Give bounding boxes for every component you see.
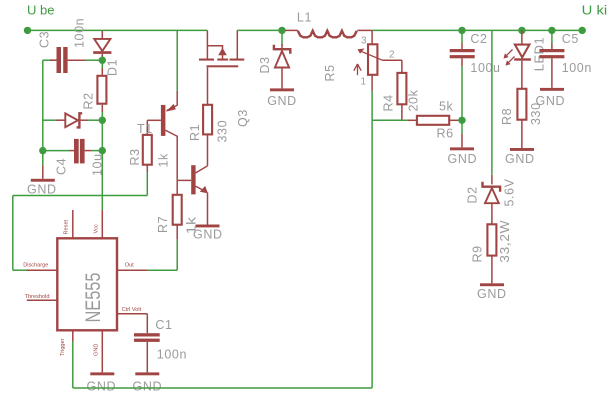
node junction dot D1 cathode <box>99 57 106 64</box>
svg-text:100u: 100u <box>470 61 500 75</box>
resistor R2 <box>82 64 107 118</box>
node junction dot U_be terminal <box>24 27 31 34</box>
svg-text:C5: C5 <box>562 32 579 46</box>
svg-text:D3: D3 <box>258 56 272 73</box>
diode D1 <box>93 31 119 76</box>
node junction dot U_ki terminal <box>579 27 586 34</box>
ground R8 <box>505 148 535 166</box>
svg-text:C2: C2 <box>470 32 487 46</box>
svg-text:GND: GND <box>536 94 566 108</box>
pin Trigger <box>60 330 73 356</box>
capacitor C4 <box>43 139 105 176</box>
svg-text:5k: 5k <box>439 100 454 114</box>
svg-text:5.6V: 5.6V <box>503 178 517 206</box>
ground below C4 <box>27 151 57 197</box>
svg-text:D1: D1 <box>106 59 120 76</box>
wire left vertical from C3 <box>42 60 44 150</box>
svg-text:R8: R8 <box>500 108 514 125</box>
transistor T1 pnp <box>137 104 177 180</box>
svg-text:GND: GND <box>505 152 535 166</box>
svg-text:R5: R5 <box>323 64 337 81</box>
node junction dot L1 left <box>278 27 285 34</box>
svg-text:R6: R6 <box>437 127 454 141</box>
wire rail right of R5 tap <box>372 29 582 31</box>
svg-text:Discharge: Discharge <box>23 262 48 268</box>
wire rail to D2 <box>491 30 493 184</box>
node junction dot R6 right / C2 bottom <box>458 117 465 124</box>
svg-text:L1: L1 <box>297 11 312 25</box>
resistor R7 <box>156 180 199 239</box>
svg-text:100n: 100n <box>157 348 187 362</box>
svg-text:C1: C1 <box>155 318 172 332</box>
resistor R1 <box>188 105 230 166</box>
svg-text:GND: GND <box>27 182 57 196</box>
wire feedback node horizontal <box>372 119 417 121</box>
pin Vcc <box>94 210 103 238</box>
node U_be label <box>27 3 54 18</box>
wire Q3 gate to R1 <box>207 67 209 105</box>
svg-text:GND: GND <box>267 94 297 108</box>
svg-text:Reset: Reset <box>63 219 69 234</box>
svg-text:330: 330 <box>216 120 230 143</box>
svg-text:1: 1 <box>361 77 367 88</box>
svg-text:R9: R9 <box>471 245 485 262</box>
pin Out <box>117 262 147 270</box>
svg-text:100n: 100n <box>73 18 87 48</box>
ground D3 <box>267 88 297 107</box>
capacitor C3 <box>38 18 100 73</box>
svg-text:3: 3 <box>361 36 367 47</box>
wire R2 bottom to C4 node <box>101 120 103 150</box>
svg-text:2: 2 <box>389 50 395 61</box>
pin Reset <box>63 210 73 238</box>
svg-text:100n: 100n <box>562 61 592 75</box>
svg-text:U be: U be <box>27 3 54 18</box>
svg-text:1k: 1k <box>157 153 171 168</box>
svg-text:LED1: LED1 <box>533 37 547 72</box>
svg-text:33,2W: 33,2W <box>498 220 512 263</box>
resistor R9 <box>471 220 513 284</box>
svg-text:Trigger: Trigger <box>60 338 66 356</box>
svg-text:Threshold: Threshold <box>25 294 50 300</box>
svg-text:C3: C3 <box>38 31 52 48</box>
potentiometer R5 <box>323 30 402 91</box>
svg-text:20k: 20k <box>407 89 421 111</box>
capacitor C1 <box>134 318 187 372</box>
ground C1 <box>133 372 163 393</box>
svg-text:Q3: Q3 <box>236 109 250 127</box>
zener diode (unlabelled, left) <box>43 113 99 127</box>
svg-text:Ctrl Volt: Ctrl Volt <box>122 307 142 313</box>
ground C2/R6 <box>448 120 478 166</box>
transistor Q3 p-mosfet <box>199 30 250 127</box>
diode D3 <box>258 30 290 88</box>
svg-text:C4: C4 <box>55 158 69 175</box>
svg-text:R4: R4 <box>382 94 396 111</box>
pin Ctrl Volt <box>117 307 147 333</box>
inductor L1 <box>285 11 372 38</box>
node U_ki label <box>582 3 608 18</box>
resistor R6 <box>417 100 459 141</box>
wire R7 bottom to OUT pin <box>147 240 177 271</box>
resistor R3 <box>128 135 171 196</box>
svg-text:GND: GND <box>133 380 163 394</box>
svg-text:GND: GND <box>94 344 100 356</box>
node junction dot C4 right <box>99 147 106 154</box>
resistor R4 <box>382 60 421 120</box>
pin Threshold <box>25 294 58 301</box>
svg-text:R3: R3 <box>128 148 142 165</box>
wire top rail mid segment <box>237 29 282 31</box>
svg-text:1k: 1k <box>185 216 199 234</box>
wire top rail left segment <box>28 29 208 31</box>
node junction dot C2 top <box>458 27 465 34</box>
svg-text:NE555: NE555 <box>82 273 105 323</box>
wire C4 node down to Vcc <box>101 151 103 210</box>
svg-text:R1: R1 <box>188 124 202 141</box>
wire discharge/R3 net <box>13 196 148 271</box>
svg-text:R2: R2 <box>82 92 96 109</box>
ground R9 <box>477 283 507 301</box>
svg-text:Out: Out <box>125 262 134 268</box>
wire trigger to feedback bottom rail <box>73 91 372 388</box>
transistor T2 npn <box>177 165 208 224</box>
zener diode D2 <box>466 178 517 224</box>
capacitor C2 <box>450 30 501 120</box>
svg-text:R7: R7 <box>156 216 170 233</box>
ground C5 <box>536 88 566 108</box>
node junction dot R2 bottom <box>99 117 106 124</box>
pin GND <box>94 330 103 372</box>
node junction dot C5 top <box>548 27 555 34</box>
capacitor C5 <box>539 30 592 88</box>
ground T2 emitter <box>193 225 223 242</box>
svg-text:D2: D2 <box>466 186 480 203</box>
pin Discharge <box>23 262 57 270</box>
ground NE555 GND pin <box>87 372 117 393</box>
resistor R8 <box>500 89 543 148</box>
svg-text:GND: GND <box>477 287 507 301</box>
node junction dot C4 left <box>39 147 46 154</box>
svg-text:Vcc: Vcc <box>94 224 100 234</box>
svg-text:GND: GND <box>448 152 478 166</box>
svg-text:GND: GND <box>87 380 117 394</box>
svg-text:U ki: U ki <box>582 3 608 18</box>
op-amp U1 NE555 <box>57 238 117 330</box>
wire U_be rail to T1 emitter <box>176 30 178 105</box>
LED LED1 <box>504 30 547 88</box>
node junction dot LED1 top <box>518 27 525 34</box>
